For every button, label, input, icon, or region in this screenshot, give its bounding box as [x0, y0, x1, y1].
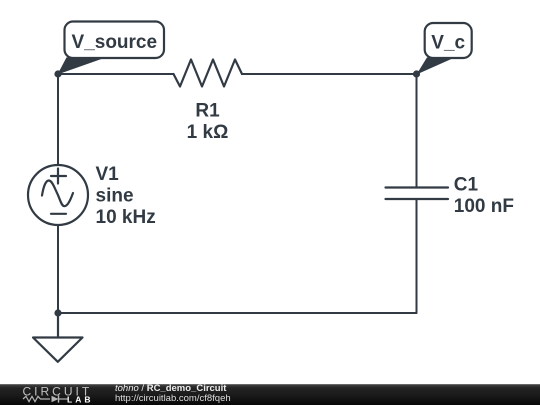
wire right lower (C1 to bottom wire): [416, 199, 418, 313]
footer bar: [0, 384, 540, 405]
label flag V_source: [58, 22, 165, 75]
CircuitLab logo resistor squiggle: [23, 396, 50, 401]
svg-text:http://circuitlab.com/cf8fqeh: http://circuitlab.com/cf8fqeh: [115, 393, 231, 404]
node V_c junction dot: [413, 70, 420, 77]
svg-text:1 kΩ: 1 kΩ: [187, 122, 229, 143]
label flag V_c: [417, 23, 472, 75]
svg-text:R1: R1: [195, 101, 220, 122]
CircuitLab logo diode: [52, 396, 59, 403]
wire top-right (R1 to node V_c): [242, 73, 417, 75]
wire right upper (node V_c to C1): [416, 74, 418, 188]
wire left upper (node V_source to V1): [57, 74, 59, 165]
svg-text:sine: sine: [96, 186, 134, 207]
capacitor C1: [386, 188, 449, 200]
svg-text:LAB: LAB: [67, 394, 93, 404]
voltage source V1: [28, 165, 88, 225]
wire top-left (node V_source to R1): [58, 73, 174, 75]
resistor R1: [174, 60, 243, 87]
svg-text:V1: V1: [96, 164, 120, 185]
svg-text:C1: C1: [454, 175, 479, 196]
node V_source junction dot: [54, 70, 61, 77]
ground node junction dot: [54, 309, 61, 316]
svg-text:V_source: V_source: [72, 32, 158, 53]
ground: [33, 313, 83, 362]
svg-text:V_c: V_c: [431, 33, 465, 54]
svg-text:10 kHz: 10 kHz: [96, 207, 156, 228]
svg-text:100 nF: 100 nF: [454, 196, 514, 217]
wire left lower (V1 to ground node): [57, 225, 59, 313]
wire bottom: [58, 312, 417, 314]
